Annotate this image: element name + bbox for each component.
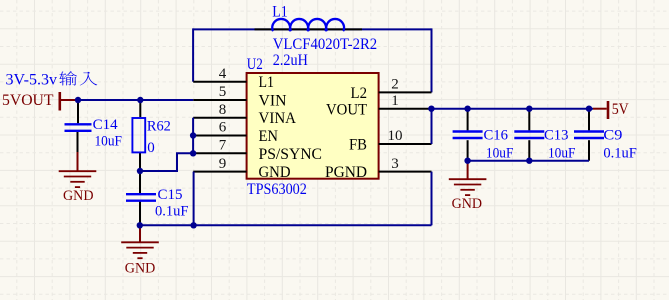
svg-text:1: 1 [391, 93, 399, 109]
svg-text:GND: GND [259, 164, 291, 181]
svg-text:EN: EN [259, 128, 279, 145]
svg-text:5: 5 [219, 84, 227, 100]
svg-text:VOUT: VOUT [326, 102, 367, 119]
svg-text:C14: C14 [93, 117, 118, 133]
svg-text:R62: R62 [147, 119, 171, 135]
svg-text:0.1uF: 0.1uF [155, 204, 189, 220]
svg-text:0: 0 [147, 140, 155, 156]
svg-text:3V-5.3v: 3V-5.3v [6, 72, 58, 89]
svg-text:VINA: VINA [259, 110, 297, 127]
svg-text:10uF: 10uF [548, 146, 576, 162]
svg-text:5V: 5V [612, 101, 629, 118]
svg-text:C9: C9 [603, 128, 622, 144]
svg-text:2: 2 [391, 77, 399, 93]
svg-text:C13: C13 [544, 128, 569, 144]
svg-text:0.1uF: 0.1uF [603, 146, 637, 162]
svg-text:GND: GND [452, 196, 483, 212]
svg-text:L1: L1 [259, 74, 275, 91]
svg-text:7: 7 [219, 138, 227, 154]
svg-text:2.2uH: 2.2uH [273, 52, 308, 69]
svg-text:5VOUT: 5VOUT [2, 92, 54, 109]
svg-text:10uF: 10uF [95, 134, 123, 150]
svg-text:3: 3 [391, 156, 399, 172]
svg-text:TPS63002: TPS63002 [247, 181, 307, 198]
svg-text:4: 4 [219, 66, 227, 82]
svg-text:L2: L2 [351, 85, 368, 102]
svg-text:C15: C15 [158, 187, 183, 203]
svg-text:9: 9 [219, 156, 227, 172]
svg-text:PGND: PGND [325, 164, 367, 181]
svg-text:VIN: VIN [259, 93, 287, 110]
svg-text:8: 8 [219, 102, 227, 118]
svg-text:10uF: 10uF [486, 146, 514, 162]
svg-text:FB: FB [349, 137, 367, 154]
svg-text:VLCF4020T-2R2: VLCF4020T-2R2 [273, 36, 378, 53]
svg-text:6: 6 [219, 120, 227, 136]
svg-text:10: 10 [388, 128, 403, 144]
svg-text:GND: GND [125, 261, 156, 277]
svg-text:U2: U2 [247, 56, 263, 73]
svg-text:C16: C16 [484, 128, 509, 144]
svg-text:GND: GND [63, 188, 94, 204]
svg-text:L1: L1 [272, 3, 288, 20]
svg-text:PS/SYNC: PS/SYNC [259, 146, 323, 163]
